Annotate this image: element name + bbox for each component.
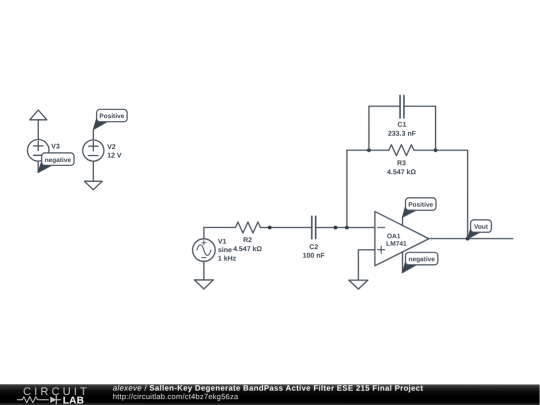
svg-text:R2: R2 [243, 237, 252, 244]
flag negative (V3) [38, 153, 74, 173]
label C2 [303, 244, 326, 259]
wire [204, 228, 236, 239]
svg-text:V1: V1 [218, 239, 227, 246]
junction dot [434, 148, 438, 152]
junction dot [268, 226, 272, 230]
flag Positive (OA1 supply) [402, 198, 436, 217]
svg-text:V2: V2 [107, 144, 116, 151]
wire (positive supply pin) [401, 217, 403, 226]
capacitor C2 [312, 216, 316, 239]
label R2 [233, 237, 262, 253]
label OA1 [386, 233, 407, 247]
wire [203, 261, 205, 280]
label C1 [388, 122, 417, 138]
wire [37, 120, 39, 140]
CircuitLab logo [17, 386, 90, 405]
wire (C1 branch) [369, 106, 436, 150]
capacitor C1 [400, 95, 404, 118]
svg-text:Positive: Positive [408, 202, 433, 209]
resistor R2 [235, 222, 260, 233]
flag Positive (V2) [93, 109, 127, 129]
wire (R3 line) [347, 149, 468, 151]
junction dot [367, 148, 371, 152]
label V1 [218, 239, 237, 263]
op-amp OA1 [375, 211, 429, 265]
wire [260, 227, 311, 229]
wire (output) [429, 238, 513, 240]
wire [92, 130, 94, 141]
ground (OA1 +) [349, 280, 368, 289]
ground (V1) [194, 280, 213, 289]
svg-text:C2: C2 [309, 244, 318, 251]
svg-text:R3: R3 [397, 160, 406, 167]
wire [316, 227, 375, 229]
voltage source V1 (sine) [193, 239, 216, 262]
svg-text:Vout: Vout [474, 224, 489, 231]
wire [37, 161, 39, 172]
svg-text:LM741: LM741 [386, 241, 407, 248]
wire (feedback left vertical) [346, 150, 348, 227]
svg-text:Positive: Positive [99, 113, 124, 120]
footer text [113, 384, 424, 401]
label V3 [51, 144, 66, 160]
wire (right vertical) [467, 150, 469, 238]
svg-text:12 V: 12 V [107, 153, 122, 160]
wire (negative supply pin) [401, 252, 403, 273]
junction dot [334, 226, 338, 230]
svg-text:100 nF: 100 nF [303, 253, 326, 260]
svg-text:233.3 nF: 233.3 nF [388, 131, 417, 138]
node flag arrow (V3 top) [30, 110, 47, 120]
junction dot [466, 237, 470, 241]
voltage source V2 [83, 140, 104, 161]
footer bar [0, 384, 540, 405]
label V2 [107, 144, 122, 160]
svg-text:sine: sine [218, 246, 232, 254]
junction dot [345, 226, 349, 230]
svg-text:C1: C1 [397, 122, 406, 129]
svg-text:4.547 kΩ: 4.547 kΩ [233, 245, 262, 253]
voltage source V3 [27, 140, 49, 162]
svg-text:1 kHz: 1 kHz [218, 255, 237, 263]
svg-text:LAB: LAB [63, 395, 84, 405]
svg-text:V3: V3 [51, 144, 60, 151]
label R3 [387, 160, 416, 176]
flag Vout [468, 220, 492, 239]
svg-text:negative: negative [408, 256, 435, 263]
resistor R3 [389, 145, 414, 156]
svg-text:http://circuitlab.com/ct4bz7ek: http://circuitlab.com/ct4bz7ekg56za [113, 392, 239, 401]
svg-text:negative: negative [45, 157, 72, 164]
wire [92, 161, 94, 181]
wire (+ input to ground) [358, 250, 375, 280]
svg-text:4.547 kΩ: 4.547 kΩ [387, 168, 416, 176]
ground (V2) [84, 181, 102, 190]
flag negative (OA1 supply) [402, 252, 437, 272]
svg-text:OA1: OA1 [387, 233, 401, 240]
